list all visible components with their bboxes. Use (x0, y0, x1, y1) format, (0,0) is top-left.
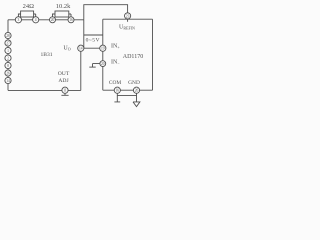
pin 16 COM (114, 87, 120, 93)
svg-text:3: 3 (18, 18, 20, 22)
svg-text:GND: GND (128, 80, 140, 86)
wire vertical behind 0-5V box (83, 20, 85, 48)
wire tie between COM and GND stems (117, 94, 136, 96)
pin 3 (15, 17, 21, 23)
svg-text:27: 27 (6, 41, 10, 45)
wire left column (7, 20, 9, 91)
earth triangle at GND pin (133, 93, 140, 106)
svg-text:16: 16 (116, 89, 120, 93)
svg-text:AD1170: AD1170 (123, 54, 143, 60)
svg-text:10.2k: 10.2k (56, 3, 71, 10)
box 0-5V annotation top edge (84, 34, 103, 36)
pin 8 (5, 62, 11, 68)
svg-text:20: 20 (101, 62, 105, 66)
svg-text:26: 26 (135, 89, 139, 93)
pin 2 (5, 55, 11, 61)
svg-text:OUT: OUT (58, 71, 70, 77)
wire bottom-right rail (103, 89, 153, 91)
svg-text:26: 26 (6, 71, 10, 75)
svg-text:14: 14 (79, 47, 83, 51)
svg-text:1: 1 (7, 49, 9, 53)
pin 19 IN+ (100, 45, 106, 51)
svg-text:IN−: IN− (111, 59, 120, 65)
svg-text:19: 19 (101, 47, 105, 51)
pin 16 top (68, 17, 74, 23)
svg-text:20: 20 (51, 18, 55, 22)
svg-text:14: 14 (6, 79, 10, 83)
pin 26 GND (133, 87, 139, 93)
resistor R1 242 leads (18, 14, 35, 20)
svg-text:8: 8 (7, 64, 9, 68)
resistor R2 10.2k leads (53, 14, 72, 20)
ground at IN- (89, 66, 95, 68)
pin 28 (5, 32, 11, 38)
pin 23 REFIN (125, 13, 131, 19)
svg-text:11: 11 (63, 89, 67, 93)
svg-text:0~5V: 0~5V (86, 38, 100, 44)
svg-text:23: 23 (126, 14, 130, 18)
wire bottom-left rail (8, 89, 81, 91)
svg-text:4: 4 (35, 18, 37, 22)
wire main top bus (8, 19, 84, 21)
svg-text:UO: UO (63, 46, 70, 52)
svg-text:1B31: 1B31 (40, 52, 52, 58)
svg-text:UREFIN: UREFIN (119, 25, 135, 31)
svg-text:24Ω: 24Ω (23, 3, 35, 10)
svg-text:COM: COM (109, 80, 121, 86)
svg-text:2: 2 (7, 56, 9, 60)
pin 14 left (5, 77, 11, 83)
wire REFIN horizontal (103, 18, 153, 20)
svg-text:IN+: IN+ (111, 44, 120, 50)
wire Uo to IN+ (81, 47, 103, 49)
pin 4 (33, 17, 39, 23)
wire right edge vertical (152, 19, 154, 90)
ground at ADJ pin (61, 93, 68, 95)
pin 11 ADJ (62, 87, 68, 93)
svg-text:ADJ: ADJ (58, 78, 69, 84)
resistor R2 10.2k body (55, 11, 69, 17)
wire pin23 lower stub (127, 19, 129, 22)
wire IN column vertical (102, 19, 104, 90)
pin 14 Uo (78, 45, 84, 51)
resistor R1 242 body (21, 11, 34, 17)
pin 1 (5, 47, 11, 53)
svg-text:28: 28 (6, 34, 10, 38)
pin 20 top (50, 17, 56, 23)
wire top detour to pin 23 (84, 5, 128, 20)
svg-text:16: 16 (69, 18, 73, 22)
wire IN- to ground (93, 64, 103, 67)
pin 27 (5, 40, 11, 46)
pin 26 (5, 70, 11, 76)
wire Uo riser (80, 48, 82, 90)
ground at COM pin (114, 93, 120, 102)
pin 20 IN- (100, 61, 106, 67)
